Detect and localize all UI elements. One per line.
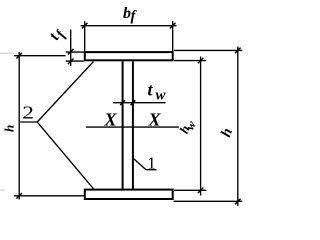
svg-text:X: X [104, 109, 118, 129]
svg-text:2: 2 [22, 102, 34, 123]
svg-text:t: t [148, 79, 154, 99]
svg-text:h: h [218, 126, 236, 139]
svg-text:X: X [148, 109, 162, 129]
svg-text:h: h [2, 125, 17, 132]
svg-text:f: f [131, 8, 138, 24]
svg-text:w: w [156, 87, 167, 103]
svg-text:1: 1 [147, 153, 156, 172]
